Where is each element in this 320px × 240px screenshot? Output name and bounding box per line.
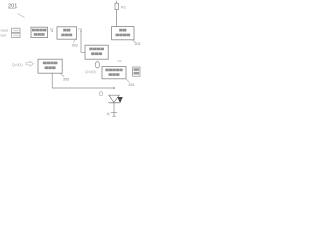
svg-text:202: 202 (135, 42, 141, 46)
wire U5 down to diode (113, 79, 115, 96)
svg-text:Uaux: Uaux (1, 29, 9, 33)
leader 202 (132, 40, 136, 43)
wire U4 down to U5 (114, 40, 116, 67)
leader 205 (60, 73, 64, 77)
input port box 1 (12, 28, 20, 32)
figure label 201 (8, 4, 17, 10)
svg-text:203: 203 (72, 43, 78, 47)
leader 203 (73, 40, 75, 43)
wire U1 to U2 (48, 30, 57, 32)
connector right of U5 (126, 70, 133, 72)
box U2 regulator sub-circuit (57, 27, 77, 39)
leader 204 (126, 79, 129, 82)
terminal below U3 (96, 59, 98, 61)
wire input2 (20, 34, 31, 36)
leader from 201 (18, 14, 25, 18)
wire input1 (20, 29, 31, 31)
wire U2 to U4 (77, 30, 112, 32)
wire U6 down and right (52, 73, 114, 88)
svg-text:205: 205 (63, 78, 69, 82)
resistor R1 (115, 1, 118, 27)
svg-text:204: 204 (128, 83, 134, 87)
box U4 drive sub-circuit (112, 27, 134, 40)
svg-text:Iout: Iout (1, 34, 7, 38)
svg-text:R1: R1 (121, 4, 127, 9)
node junction (113, 87, 115, 89)
box U5 wireless sub-circuit (102, 67, 126, 79)
svg-text:N3: N3 (118, 59, 122, 63)
wire node N2 down to U3 (81, 31, 85, 52)
box U1 power-select sub-circuit (31, 27, 48, 37)
input port box 2 (12, 33, 20, 37)
svg-text:Q=0(0): Q=0(0) (85, 70, 96, 74)
block arrow (26, 61, 33, 66)
box U6 first control sub-circuit (38, 59, 62, 73)
gate circle (99, 92, 103, 96)
box U3 second control sub-circuit (85, 45, 108, 59)
svg-text:Q=0(1): Q=0(1) (12, 63, 23, 67)
diode D1 (109, 95, 123, 103)
wire node N1 down (51, 31, 53, 59)
ground (111, 103, 117, 117)
